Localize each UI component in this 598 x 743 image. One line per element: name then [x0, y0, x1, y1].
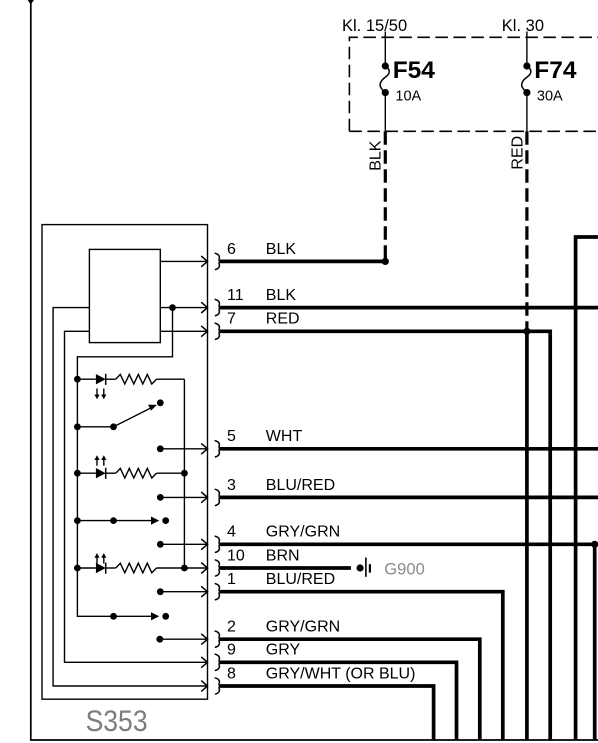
wire RED vertical continuation — [525, 331, 529, 740]
switch SW3 — [110, 612, 169, 620]
wire 11 BLK — [220, 306, 598, 310]
pin 10 socket — [201, 560, 220, 576]
switch SW2 — [74, 517, 169, 525]
svg-text:GRY/GRN: GRY/GRN — [266, 619, 340, 636]
pin 8 socket — [201, 678, 220, 694]
switch SW1 — [74, 399, 164, 430]
svg-text:6: 6 — [227, 241, 236, 258]
svg-text:4: 4 — [227, 524, 236, 541]
pin 11 socket — [201, 299, 220, 315]
svg-text:1: 1 — [227, 571, 236, 588]
svg-text:RED: RED — [510, 136, 527, 170]
fuse F54 — [380, 32, 435, 132]
fuse box dashed border — [349, 37, 598, 131]
LED D2 light arrows up — [97, 459, 104, 466]
svg-text:F54: F54 — [393, 57, 436, 84]
svg-text:BLK: BLK — [368, 140, 385, 171]
pin 4 socket — [201, 536, 220, 552]
wire RED dashed drop from F74 — [510, 131, 527, 329]
component box S353 — [42, 225, 208, 700]
pin 6 socket — [201, 253, 220, 269]
svg-text:WHT: WHT — [266, 428, 303, 445]
pin 1 socket — [201, 584, 220, 600]
pin 5 contact and wire — [157, 445, 207, 452]
internal wire inner-box left to pin 9 vertical — [65, 331, 207, 662]
svg-text:GRY/WHT (OR BLU): GRY/WHT (OR BLU) — [266, 665, 416, 682]
internal trunk vertical from R1 to LED rows — [183, 379, 185, 568]
svg-text:BLU/RED: BLU/RED — [266, 477, 335, 494]
wire 7 RED — [220, 331, 550, 740]
svg-text:GRY: GRY — [266, 642, 301, 659]
fuse F74 — [522, 32, 577, 132]
wire 5 WHT — [220, 447, 598, 451]
svg-text:Kl. 15/50: Kl. 15/50 — [342, 17, 407, 35]
wire BLK dashed drop from F54 — [368, 131, 386, 259]
internal wire to pin 11 — [160, 307, 207, 309]
svg-text:10: 10 — [227, 547, 245, 564]
frame border vertical with top arrowhead — [28, 0, 34, 740]
svg-text:10A: 10A — [395, 89, 421, 105]
pin 4 contact and wire — [157, 541, 207, 548]
node: RED to wire 7 junction — [523, 328, 530, 335]
frame border bottom — [30, 739, 598, 741]
wire 1 BLU/RED — [220, 592, 503, 740]
pin 3 contact and wire — [157, 494, 207, 501]
wire 8 GRY/WHT — [220, 686, 434, 740]
svg-text:BLU/RED: BLU/RED — [266, 571, 335, 588]
pin 2 contact and wire — [156, 636, 206, 643]
inner relay box — [89, 249, 160, 342]
svg-text:11: 11 — [227, 287, 244, 304]
internal bus from pin11 node — [77, 308, 172, 617]
internal wire to pin 7 — [160, 330, 207, 332]
svg-text:BLK: BLK — [266, 287, 297, 304]
wire 4 GRY/GRN — [220, 544, 595, 740]
svg-text:G900: G900 — [384, 559, 425, 578]
svg-text:F74: F74 — [534, 57, 577, 84]
node: wire 4 corner junction — [591, 541, 598, 548]
LED D1 row with resistor R1 — [74, 374, 184, 399]
svg-text:7: 7 — [227, 311, 236, 328]
pin 5 socket — [201, 441, 220, 457]
LED D1 light arrows down — [97, 389, 104, 396]
LED D3 row with resistor R3 to pin 10 — [74, 553, 207, 574]
node: BLK wire end junction — [382, 258, 389, 265]
pin 3 socket — [201, 489, 220, 505]
wire 2 GRY/GRN — [220, 639, 480, 740]
LED D2 row with resistor R2 — [74, 455, 188, 479]
pin 7 socket — [201, 323, 220, 339]
pin 1 contact and wire — [157, 588, 207, 595]
internal wire inner-box left to pin 8 vertical — [53, 308, 207, 686]
wire stub top right going off page — [576, 237, 598, 740]
wire 6 BLK — [220, 260, 385, 264]
svg-text:2: 2 — [227, 619, 236, 636]
pin number and wire color labels — [227, 241, 415, 683]
svg-text:BRN: BRN — [266, 547, 300, 564]
svg-text:BLK: BLK — [266, 241, 297, 258]
ground point G900 — [357, 558, 425, 579]
svg-text:3: 3 — [227, 477, 236, 494]
svg-text:S353: S353 — [86, 705, 148, 738]
svg-text:GRY/GRN: GRY/GRN — [266, 524, 340, 541]
svg-text:9: 9 — [227, 642, 236, 659]
pin 2 socket — [201, 631, 220, 647]
wire 3 BLU/RED — [220, 496, 598, 500]
pin 9 socket — [201, 654, 220, 670]
connector pin arrows and sockets (11 pins) — [201, 253, 220, 694]
node junction on pin11 wire — [169, 304, 176, 311]
internal wire to pin 6 — [160, 260, 207, 262]
svg-text:RED: RED — [266, 311, 300, 328]
wire 10 BRN — [220, 566, 351, 570]
svg-text:Kl. 30: Kl. 30 — [502, 17, 544, 35]
LED D3 light arrows up — [97, 557, 104, 564]
svg-text:8: 8 — [227, 665, 236, 682]
svg-text:5: 5 — [227, 428, 236, 445]
wire 9 GRY — [220, 662, 457, 740]
heavy wires — [220, 237, 598, 740]
svg-text:30A: 30A — [537, 89, 563, 105]
